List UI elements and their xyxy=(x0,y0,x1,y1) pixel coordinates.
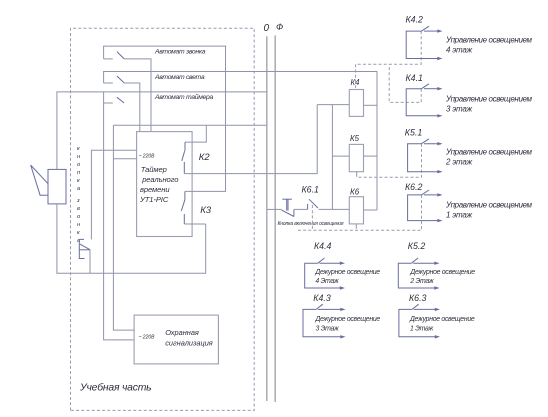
svg-text:К6.3: К6.3 xyxy=(409,293,427,303)
svg-text:УТ1-РIС: УТ1-РIС xyxy=(139,195,169,204)
svg-text:К6.1: К6.1 xyxy=(302,184,320,194)
svg-text:К4.3: К4.3 xyxy=(313,293,331,303)
svg-text:п: п xyxy=(77,170,80,176)
svg-text:4 этаж: 4 этаж xyxy=(446,46,473,55)
svg-text:к: к xyxy=(77,230,80,236)
svg-text:Автомат света: Автомат света xyxy=(154,74,205,81)
svg-text:Дежурное освещение: Дежурное освещение xyxy=(409,316,475,323)
svg-text:н: н xyxy=(77,222,80,228)
svg-text:Автомат таймера: Автомат таймера xyxy=(154,93,214,101)
svg-text:Учебная часть: Учебная часть xyxy=(79,382,151,394)
svg-text:Дежурное освещение: Дежурное освещение xyxy=(314,269,380,276)
svg-text:Управление освещением: Управление освещением xyxy=(445,201,532,210)
svg-text:К4.1: К4.1 xyxy=(406,73,424,83)
svg-text:Дежурное освещение: Дежурное освещение xyxy=(409,269,475,276)
svg-text:Управление освещением: Управление освещением xyxy=(445,95,532,104)
svg-text:К6.2: К6.2 xyxy=(405,182,423,192)
svg-text:~ 220В: ~ 220В xyxy=(139,154,156,160)
svg-text:з: з xyxy=(76,198,80,204)
svg-text:К5: К5 xyxy=(350,134,360,143)
svg-text:К2: К2 xyxy=(199,152,211,163)
svg-text:в: в xyxy=(77,206,80,212)
svg-text:к: к xyxy=(77,178,80,184)
svg-text:времени: времени xyxy=(140,185,170,194)
svg-text:3 Этаж: 3 Этаж xyxy=(316,325,340,332)
svg-text:К4.4: К4.4 xyxy=(314,241,332,251)
svg-text:Автомат звонка: Автомат звонка xyxy=(154,49,206,56)
svg-text:Кнопка включения освещения: Кнопка включения освещения xyxy=(278,221,344,227)
svg-text:о: о xyxy=(77,162,80,168)
svg-text:2 этаж: 2 этаж xyxy=(445,158,473,167)
svg-text:о: о xyxy=(77,214,80,220)
svg-text:2 Этаж: 2 Этаж xyxy=(409,278,434,285)
svg-text:сигнализация: сигнализация xyxy=(165,339,213,348)
svg-text:~ 220В: ~ 220В xyxy=(139,335,156,341)
svg-text:Дежурное освещение: Дежурное освещение xyxy=(315,316,381,323)
svg-text:К4.2: К4.2 xyxy=(406,15,424,25)
svg-text:Ф: Ф xyxy=(276,22,283,32)
svg-text:К6: К6 xyxy=(350,188,360,197)
svg-text:0: 0 xyxy=(264,23,270,34)
svg-text:1 Этаж: 1 Этаж xyxy=(410,325,434,332)
svg-text:4 Этаж: 4 Этаж xyxy=(315,278,339,285)
svg-text:К5.2: К5.2 xyxy=(408,241,426,251)
svg-text:Управление освещением: Управление освещением xyxy=(445,148,532,157)
svg-text:реального: реального xyxy=(141,175,178,184)
svg-text:К5.1: К5.1 xyxy=(405,127,423,137)
svg-text:3 этаж: 3 этаж xyxy=(446,105,473,114)
svg-text:к: к xyxy=(77,146,80,152)
svg-text:Охранная: Охранная xyxy=(165,328,199,337)
svg-text:а: а xyxy=(77,186,80,192)
svg-text:1 этаж: 1 этаж xyxy=(446,211,473,220)
svg-text:н: н xyxy=(77,154,80,160)
svg-text:К3: К3 xyxy=(200,205,212,216)
svg-text:Таймер: Таймер xyxy=(141,165,167,174)
svg-text:Управление освещением: Управление освещением xyxy=(445,36,532,45)
